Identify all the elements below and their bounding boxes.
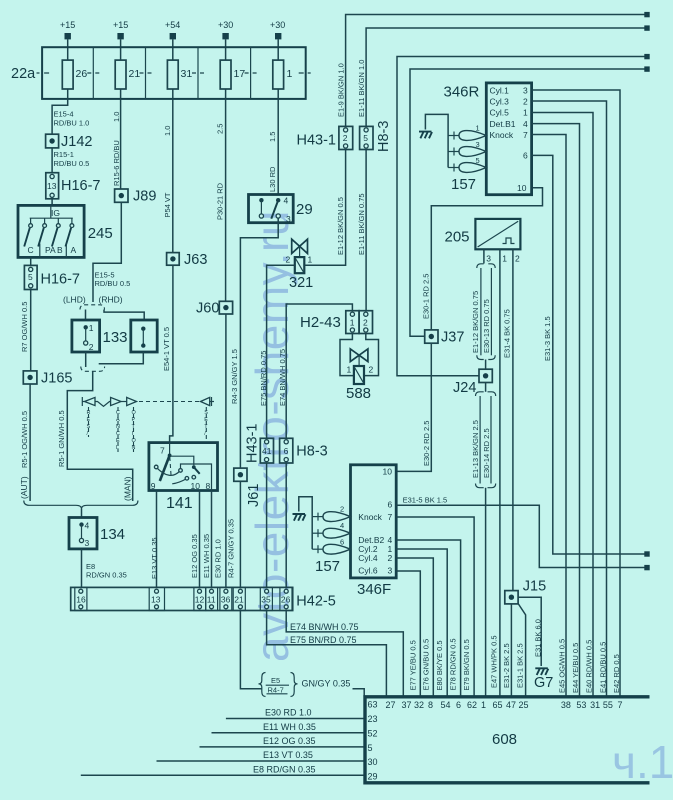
svg-text:E41 RD/BU 0.5: E41 RD/BU 0.5 bbox=[598, 642, 607, 693]
wire E31-2 J15 to 608 pin47 bbox=[510, 604, 512, 697]
wire E13 VT 141 pin9 to H42-5 pin13 bbox=[156, 491, 158, 588]
paired wire E1-13 / E30-14 bbox=[479, 396, 481, 484]
svg-text:E31-2 BK 2.5: E31-2 BK 2.5 bbox=[502, 643, 511, 688]
svg-text:A: A bbox=[71, 245, 77, 255]
bracket AUT/MAN merge bbox=[24, 501, 138, 510]
svg-text:S: S bbox=[204, 410, 208, 416]
svg-text:2: 2 bbox=[388, 553, 393, 563]
svg-text:R5-1 OG/WH 0.5: R5-1 OG/WH 0.5 bbox=[20, 411, 29, 468]
svg-text:23: 23 bbox=[368, 714, 378, 724]
svg-text:157: 157 bbox=[451, 176, 476, 193]
svg-text:2: 2 bbox=[89, 342, 94, 352]
wire R4-3 GN/GY relay29 to J61 bbox=[240, 218, 278, 468]
svg-text:3: 3 bbox=[486, 254, 491, 264]
svg-text:H42-5: H42-5 bbox=[296, 594, 336, 610]
junction J63 bbox=[167, 252, 208, 268]
svg-text:32: 32 bbox=[414, 700, 424, 710]
wire E76 346F pin2 to 608 pin8 bbox=[396, 558, 433, 697]
svg-text:157: 157 bbox=[315, 558, 340, 575]
svg-text:3: 3 bbox=[476, 140, 480, 149]
ground (346R sensors) bbox=[419, 132, 432, 139]
wire E1-11 H8-3 pin5 to H2-43 pin2 bbox=[365, 150, 367, 311]
svg-text:7: 7 bbox=[618, 700, 623, 710]
dashed column RES bbox=[88, 407, 90, 437]
svg-text:65: 65 bbox=[493, 700, 503, 710]
svg-text:6: 6 bbox=[340, 538, 344, 547]
svg-text:4: 4 bbox=[340, 521, 344, 530]
valve 588 bbox=[346, 349, 374, 402]
terminal square bus2 bbox=[644, 25, 649, 30]
bracket pair top (E1-12/E30-13) bbox=[477, 264, 495, 268]
wire E12 OG to 608 pin5 bbox=[200, 746, 364, 748]
svg-text:J24: J24 bbox=[453, 380, 476, 396]
wire 346R pin7 to 608 pin38 bbox=[532, 135, 566, 697]
svg-text:E1-9 BK/GN 1.0: E1-9 BK/GN 1.0 bbox=[336, 63, 345, 117]
connector H43-1 pin41 bbox=[245, 424, 274, 464]
svg-text:6: 6 bbox=[388, 500, 393, 510]
switch 134 bbox=[69, 518, 125, 549]
svg-text:608: 608 bbox=[492, 731, 517, 748]
svg-text:J63: J63 bbox=[184, 252, 207, 268]
valve 321 bbox=[286, 239, 314, 291]
junction J15 bbox=[505, 579, 546, 604]
svg-text:27: 27 bbox=[386, 700, 396, 710]
svg-text:H16-7: H16-7 bbox=[61, 178, 101, 194]
fuse 1 bbox=[273, 60, 293, 99]
svg-text:2: 2 bbox=[343, 133, 348, 143]
cell 36 bbox=[220, 587, 232, 610]
wire E31-1 J15 to 608 pin25 bbox=[518, 604, 526, 697]
wire 346R pin4 to 608 pin53 bbox=[532, 124, 580, 697]
bracket LHD/RHD split bbox=[80, 305, 105, 310]
svg-text:E1-13 BK/GN 2.5: E1-13 BK/GN 2.5 bbox=[471, 420, 480, 478]
svg-text:1: 1 bbox=[502, 254, 507, 264]
svg-text:E31 BK 6.0: E31 BK 6.0 bbox=[534, 619, 543, 657]
svg-text:E1-12 BK/GN 0.75: E1-12 BK/GN 0.75 bbox=[471, 291, 480, 353]
wire E30-1 RD J37 up to 346R pin10 link bbox=[431, 188, 542, 330]
svg-text:E75 BN/RD 0.75: E75 BN/RD 0.75 bbox=[259, 351, 268, 406]
svg-text:G7: G7 bbox=[534, 675, 553, 691]
svg-text:141: 141 bbox=[166, 495, 193, 512]
wire J24 to bracket pair lower bbox=[485, 383, 487, 392]
knock sensors 157 (rear bank) bbox=[293, 497, 351, 575]
svg-text:1: 1 bbox=[476, 124, 480, 133]
svg-text:1: 1 bbox=[89, 323, 94, 333]
label E5/R4-7 GN/GY 0.35 bbox=[259, 673, 351, 697]
svg-text:55: 55 bbox=[603, 700, 613, 710]
svg-text:H16-7: H16-7 bbox=[41, 272, 81, 288]
bracket pair top (E1-13/E30-14) bbox=[476, 392, 496, 396]
svg-text:1: 1 bbox=[347, 365, 352, 375]
wire 133 outputs merge bbox=[99, 352, 144, 364]
svg-text:22a: 22a bbox=[11, 66, 36, 82]
svg-text:B: B bbox=[57, 245, 63, 255]
svg-text:3: 3 bbox=[286, 214, 291, 224]
svg-text:E77 YE/BU 0.5: E77 YE/BU 0.5 bbox=[409, 640, 418, 690]
wire 346R pin3 to 608 pin7 bbox=[532, 90, 620, 697]
svg-text:R: R bbox=[87, 410, 91, 416]
arrow SET bbox=[201, 397, 210, 405]
svg-text:N: N bbox=[116, 424, 120, 430]
svg-text:8: 8 bbox=[428, 700, 433, 710]
svg-text:346F: 346F bbox=[357, 581, 391, 598]
svg-text:21: 21 bbox=[129, 68, 141, 80]
ECU 608 bbox=[365, 697, 650, 783]
svg-text:+15: +15 bbox=[60, 20, 75, 30]
svg-text:8: 8 bbox=[206, 481, 211, 491]
wire E8 RD/GN 134 to H42-5 pin16 bbox=[81, 549, 83, 588]
svg-text:3: 3 bbox=[388, 566, 393, 576]
wire E11 WH to 608 pin52 bbox=[212, 732, 364, 734]
svg-text:IG: IG bbox=[51, 208, 60, 218]
svg-text:PA: PA bbox=[45, 245, 56, 255]
svg-text:25: 25 bbox=[519, 700, 529, 710]
svg-text:E12 OG 0.35: E12 OG 0.35 bbox=[263, 736, 316, 746]
svg-text:O: O bbox=[132, 410, 137, 416]
svg-text:R15-6 RD/BU: R15-6 RD/BU bbox=[112, 140, 121, 186]
svg-text:38: 38 bbox=[561, 700, 571, 710]
svg-text:GN/GY 0.35: GN/GY 0.35 bbox=[302, 679, 351, 689]
bracket pair bottom (E1-13/E30-14) bbox=[476, 484, 496, 488]
svg-text:6: 6 bbox=[523, 151, 528, 161]
wire E75 H42-5 pin35 to 608 pin27 bbox=[267, 611, 387, 697]
svg-text:5: 5 bbox=[28, 272, 33, 282]
svg-text:4: 4 bbox=[523, 119, 528, 129]
svg-text:A: A bbox=[116, 417, 120, 423]
svg-text:11: 11 bbox=[207, 595, 216, 605]
fuse 21 bbox=[115, 60, 140, 99]
connector H2-43 pin1 bbox=[300, 311, 359, 334]
svg-text:Cyl.3: Cyl.3 bbox=[490, 96, 510, 106]
terminal square busB bbox=[644, 565, 649, 570]
svg-text:2: 2 bbox=[340, 505, 344, 514]
svg-text:(RHD): (RHD) bbox=[99, 295, 123, 305]
svg-text:2: 2 bbox=[363, 318, 368, 328]
svg-text:R4-7: R4-7 bbox=[268, 685, 284, 694]
svg-text:13: 13 bbox=[151, 595, 161, 605]
wire E13 VT to 608 pin30 bbox=[157, 760, 364, 762]
dashed column OPTION bbox=[133, 407, 135, 452]
terminal +30 fuse1 bbox=[270, 20, 285, 60]
sensor module 205 bbox=[445, 219, 521, 264]
wire E74 pin6 to H42-5 pin26 bbox=[285, 463, 287, 587]
svg-text:2: 2 bbox=[369, 365, 374, 375]
svg-text:245: 245 bbox=[88, 225, 113, 242]
relay 133 LHD bbox=[72, 320, 100, 352]
svg-text:P30-21 RD: P30-21 RD bbox=[215, 182, 224, 220]
svg-text:E31-1 BK 2.5: E31-1 BK 2.5 bbox=[516, 643, 525, 688]
svg-text:E79 BK/GN 0.5: E79 BK/GN 0.5 bbox=[462, 639, 471, 690]
svg-text:53: 53 bbox=[576, 700, 586, 710]
wire E75 321 pin2 to H43-1 pin41 bbox=[267, 265, 295, 438]
svg-text:21: 21 bbox=[234, 595, 244, 605]
svg-text:E42 RD 0.5: E42 RD 0.5 bbox=[612, 654, 621, 693]
fuse 26 bbox=[62, 60, 87, 99]
svg-text:E13 VT 0.35: E13 VT 0.35 bbox=[263, 750, 313, 760]
svg-text:+54: +54 bbox=[165, 20, 180, 30]
wire R15-1 J142 to H16-7 bbox=[51, 148, 53, 173]
svg-text:L: L bbox=[116, 445, 119, 451]
cell 12 bbox=[194, 587, 206, 610]
wire E1-11 bus bbox=[366, 28, 645, 126]
ground G7 bbox=[534, 668, 553, 691]
svg-text:5: 5 bbox=[476, 156, 480, 165]
wire bus3 to J24 bbox=[397, 57, 645, 376]
terminal square bus3 bbox=[644, 54, 649, 59]
svg-text:R15-1: R15-1 bbox=[54, 150, 74, 159]
spring link bbox=[95, 402, 111, 407]
connector H2-43 pin2 bbox=[359, 311, 372, 334]
svg-text:H8-3: H8-3 bbox=[376, 121, 392, 152]
svg-text:R4-3 GN/GY 1.5: R4-3 GN/GY 1.5 bbox=[230, 349, 239, 404]
svg-text:C: C bbox=[116, 431, 120, 437]
svg-text:E75 BN/RD 0.75: E75 BN/RD 0.75 bbox=[290, 635, 357, 645]
svg-text:RD/GN 0.35: RD/GN 0.35 bbox=[86, 571, 127, 580]
wire E30 RD J60 to H42-5 pin36 bbox=[225, 314, 227, 587]
ignition switch 245 bbox=[18, 205, 113, 257]
svg-text:Det.B1: Det.B1 bbox=[490, 119, 516, 129]
svg-text:31: 31 bbox=[181, 68, 193, 80]
svg-text:E13 VT 0.35: E13 VT 0.35 bbox=[150, 537, 159, 579]
svg-text:1.0: 1.0 bbox=[163, 126, 172, 136]
arrow RES bbox=[81, 397, 83, 406]
wire R5-1 OG/WH to AUT bracket bbox=[29, 384, 31, 501]
svg-text:L30 RD: L30 RD bbox=[268, 166, 277, 192]
svg-text:J165: J165 bbox=[41, 371, 72, 387]
svg-text:2: 2 bbox=[523, 96, 528, 106]
svg-text:R5-1 GN/WH 0.5: R5-1 GN/WH 0.5 bbox=[57, 410, 66, 467]
wire E77 346F pin3 to 608 pin32 bbox=[396, 571, 420, 697]
bracket pair bottom bbox=[477, 355, 495, 359]
cell 26 bbox=[280, 587, 292, 610]
svg-text:5: 5 bbox=[363, 133, 368, 143]
svg-text:6: 6 bbox=[456, 700, 461, 710]
wire E8 RD/GN to 608 pin29 bbox=[81, 774, 364, 776]
svg-text:E30 RD 1.0: E30 RD 1.0 bbox=[265, 708, 312, 718]
wire R7 OG/WH to J165 bbox=[30, 290, 32, 371]
svg-text:E74 BN/WH 0.75: E74 BN/WH 0.75 bbox=[278, 349, 287, 406]
svg-text:1: 1 bbox=[350, 318, 355, 328]
svg-text:RD/BU 0.5: RD/BU 0.5 bbox=[54, 159, 90, 168]
svg-text:R7 OG/WH 0.5: R7 OG/WH 0.5 bbox=[20, 302, 29, 352]
connector H16-7 pin 5 bbox=[24, 265, 80, 289]
wire E47 WH/PK 205 pin1 to 608 pin65 bbox=[499, 249, 501, 697]
svg-text:E8 RD/GN 0.35: E8 RD/GN 0.35 bbox=[253, 765, 316, 775]
svg-text:54: 54 bbox=[441, 700, 451, 710]
svg-text:10: 10 bbox=[517, 183, 527, 193]
svg-text:2: 2 bbox=[286, 255, 291, 265]
svg-text:E11 WH 0.35: E11 WH 0.35 bbox=[202, 534, 211, 578]
fuse 17 bbox=[220, 60, 245, 99]
wire E80 346F pin1 to 608 pin54 bbox=[396, 549, 447, 697]
wire fuse21 to J89 bbox=[120, 99, 122, 189]
svg-text:4: 4 bbox=[85, 521, 90, 531]
svg-text:9: 9 bbox=[151, 481, 156, 491]
svg-text:(LHD): (LHD) bbox=[63, 295, 86, 305]
wire E30 RD to 608 pin23 bbox=[226, 718, 364, 720]
svg-text:J37: J37 bbox=[441, 330, 464, 346]
svg-text:1.5: 1.5 bbox=[268, 132, 277, 142]
svg-text:Cyl.1: Cyl.1 bbox=[490, 85, 510, 95]
svg-text:E31-4 BK 0.75: E31-4 BK 0.75 bbox=[502, 309, 511, 358]
svg-text:C: C bbox=[116, 410, 120, 416]
svg-text:5: 5 bbox=[368, 743, 373, 753]
svg-text:29: 29 bbox=[296, 201, 313, 218]
wire E12 OG 141 pin10 to H42-5 pin12 bbox=[199, 491, 201, 588]
svg-text:RD/BU 1.0: RD/BU 1.0 bbox=[54, 119, 90, 128]
svg-text:E31-3 BK 1.5: E31-3 BK 1.5 bbox=[543, 316, 552, 361]
relay 133 RHD bbox=[131, 320, 157, 352]
svg-text:E44 YE/BU 0.5: E44 YE/BU 0.5 bbox=[571, 643, 580, 693]
svg-text:30: 30 bbox=[368, 757, 378, 767]
wire bracket to 134 bbox=[81, 509, 83, 518]
wire 346R pin2 to 608 pin55 bbox=[532, 101, 607, 697]
svg-text:E30 RD 1.0: E30 RD 1.0 bbox=[214, 539, 223, 578]
svg-text:Knock: Knock bbox=[490, 130, 514, 140]
bracket 133 merge bbox=[81, 367, 105, 372]
wire H16-7 to 245 bbox=[51, 199, 53, 206]
svg-text:E54-1 VT 0.5: E54-1 VT 0.5 bbox=[162, 327, 171, 371]
svg-text:P: P bbox=[132, 417, 136, 423]
svg-text:E30-1 RD 2.5: E30-1 RD 2.5 bbox=[421, 274, 430, 319]
svg-text:E76 GN/BU 0.5: E76 GN/BU 0.5 bbox=[422, 639, 431, 691]
cell 16 bbox=[75, 587, 87, 610]
svg-text:+15: +15 bbox=[113, 20, 128, 30]
svg-text:E1-11 BK/GN 1.0: E1-11 BK/GN 1.0 bbox=[357, 60, 366, 117]
junction J24 bbox=[453, 369, 492, 396]
wire fuse31 P54 to J63 bbox=[172, 99, 174, 253]
wire E1-9 bus bbox=[346, 15, 645, 127]
terminal square busA bbox=[644, 551, 649, 556]
svg-text:E30-14 RD 2.5: E30-14 RD 2.5 bbox=[482, 428, 491, 478]
dashed column SET bbox=[205, 407, 207, 443]
svg-text:1.0: 1.0 bbox=[112, 112, 121, 122]
wire E78 346F pin4 to 608 pin6 bbox=[396, 540, 460, 697]
wire E79 346F pin7 to 608 pin62 bbox=[396, 517, 474, 697]
svg-text:+30: +30 bbox=[270, 20, 285, 30]
cell 11 bbox=[206, 587, 218, 610]
svg-text:(AUT): (AUT) bbox=[19, 476, 29, 499]
svg-text:R4-7 GN/GY 0.35: R4-7 GN/GY 0.35 bbox=[227, 519, 236, 578]
connector strip H42-5 bbox=[71, 587, 336, 610]
svg-text:29: 29 bbox=[368, 772, 378, 782]
svg-text:2: 2 bbox=[515, 254, 520, 264]
svg-text:134: 134 bbox=[100, 526, 125, 543]
svg-text:13: 13 bbox=[47, 181, 57, 191]
arrow OPTION bbox=[127, 397, 137, 405]
svg-text:H2-43: H2-43 bbox=[300, 314, 341, 331]
svg-text:31: 31 bbox=[590, 700, 600, 710]
junction J37 bbox=[425, 330, 465, 346]
svg-text:H8-3: H8-3 bbox=[296, 444, 327, 460]
svg-text:O: O bbox=[132, 438, 137, 444]
dashed column CANCEL bbox=[117, 407, 119, 452]
svg-text:J142: J142 bbox=[61, 134, 92, 150]
wire E31 BK to ground G7 bbox=[518, 597, 541, 666]
svg-text:3: 3 bbox=[85, 538, 90, 548]
svg-text:+30: +30 bbox=[218, 20, 233, 30]
svg-text:7: 7 bbox=[388, 512, 393, 522]
svg-text:E74 BN/WH 0.75: E74 BN/WH 0.75 bbox=[290, 622, 359, 632]
svg-text:J15: J15 bbox=[523, 579, 546, 595]
connector H8-3 pin6 bbox=[280, 438, 328, 463]
svg-text:E: E bbox=[204, 417, 208, 423]
terminal square bus4 bbox=[644, 66, 649, 71]
wire bus4 to J37 bbox=[410, 69, 645, 336]
svg-text:E: E bbox=[116, 438, 120, 444]
terminal +15 fuse26 bbox=[60, 20, 75, 60]
svg-text:62: 62 bbox=[467, 700, 477, 710]
svg-text:N: N bbox=[132, 445, 136, 451]
svg-text:E80 BK/YE 0.5: E80 BK/YE 0.5 bbox=[435, 640, 444, 690]
svg-text:(MAN): (MAN) bbox=[123, 476, 133, 501]
svg-text:3: 3 bbox=[523, 85, 528, 95]
ground (346F sensors) bbox=[293, 514, 306, 521]
svg-text:E1-12 BK/GN 0.5: E1-12 BK/GN 0.5 bbox=[336, 197, 345, 255]
svg-text:37: 37 bbox=[402, 700, 412, 710]
svg-text:321: 321 bbox=[289, 275, 313, 291]
wire 245 to H16-7 pin 5 bbox=[30, 257, 32, 265]
wire R5-1 GN/WH from 133 to MAN bracket bbox=[67, 372, 132, 502]
svg-text:52: 52 bbox=[368, 728, 378, 738]
svg-text:Cyl.4: Cyl.4 bbox=[358, 553, 378, 563]
terminal +54 fuse31 bbox=[165, 20, 180, 60]
junction J142 bbox=[46, 134, 93, 150]
svg-text:E12 OG 0.35: E12 OG 0.35 bbox=[190, 534, 199, 578]
wire E54-1 VT J63 to 141 bbox=[170, 265, 173, 442]
wire E74 H42-5 pin26 to 608 pin37 bbox=[286, 611, 403, 697]
svg-text:E78 RD/GN 0.5: E78 RD/GN 0.5 bbox=[448, 638, 457, 690]
wire GN/GY H42-5 pin21 to 608 pin63 bbox=[240, 611, 262, 689]
svg-text:E47 WH/PK 0.5: E47 WH/PK 0.5 bbox=[489, 635, 498, 688]
svg-text:1: 1 bbox=[308, 255, 313, 265]
svg-text:Knock: Knock bbox=[358, 512, 382, 522]
paired wire E1-12 / E30-13 bbox=[480, 268, 482, 355]
cell 35 bbox=[260, 587, 272, 610]
wire E74 BN/WH H2-43 pin1 to H8-3 pin6 bbox=[286, 304, 352, 438]
cell 13 bbox=[149, 587, 164, 610]
dashed link bbox=[139, 401, 200, 403]
svg-text:E31-5 BK 1.5: E31-5 BK 1.5 bbox=[403, 496, 448, 505]
fuse 31 bbox=[167, 60, 192, 99]
cruise control stalk mechanical row bbox=[82, 397, 214, 452]
svg-text:10: 10 bbox=[191, 481, 201, 491]
svg-text:E40 RD/WH 0.5: E40 RD/WH 0.5 bbox=[584, 640, 593, 693]
svg-text:47: 47 bbox=[506, 700, 516, 710]
junction J165 bbox=[23, 371, 72, 387]
terminal +15 fuse21 bbox=[113, 20, 128, 60]
svg-text:ч.1: ч.1 bbox=[612, 736, 673, 788]
fuse box 22a bbox=[11, 47, 311, 99]
connector H43-1 pin2 (top) bbox=[297, 126, 353, 149]
wire E1-12 321 pin1 to H43-1 pin2 bbox=[304, 150, 345, 266]
svg-text:10: 10 bbox=[383, 467, 393, 477]
svg-text:E15-4: E15-4 bbox=[54, 110, 74, 119]
wire to 133 LHD bbox=[85, 310, 87, 321]
wire to 608 pin 1 bbox=[485, 488, 487, 697]
svg-text:133: 133 bbox=[103, 329, 128, 346]
svg-text:E11 WH 0.35: E11 WH 0.35 bbox=[263, 722, 316, 732]
svg-text:7: 7 bbox=[160, 446, 165, 456]
svg-text:16: 16 bbox=[76, 595, 86, 605]
valve 588 wiring loop bbox=[340, 334, 354, 376]
svg-text:H43-1: H43-1 bbox=[297, 133, 337, 149]
svg-text:205: 205 bbox=[445, 229, 470, 246]
svg-text:E30-2 RD 2.5: E30-2 RD 2.5 bbox=[422, 421, 431, 466]
wire E15-5 J89 to 133 split bbox=[93, 202, 121, 302]
svg-text:J60: J60 bbox=[196, 301, 219, 317]
wire E11 WH 141 pin8 to H42-5 pin11 bbox=[211, 491, 213, 588]
